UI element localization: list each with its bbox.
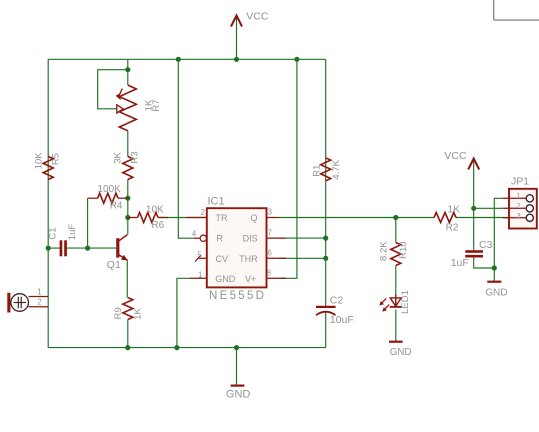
svg-text:C3: C3: [479, 239, 493, 251]
svg-text:1: 1: [517, 191, 521, 200]
svg-text:Q1: Q1: [107, 259, 121, 271]
svg-text:6: 6: [268, 248, 272, 257]
svg-text:R4: R4: [110, 201, 123, 212]
svg-text:NE555D: NE555D: [209, 290, 266, 302]
svg-text:3K: 3K: [113, 151, 124, 163]
svg-text:VCC: VCC: [444, 150, 467, 162]
svg-text:R2: R2: [446, 222, 459, 233]
svg-text:2: 2: [200, 208, 204, 217]
svg-text:1: 1: [37, 287, 42, 296]
svg-text:3: 3: [268, 208, 272, 217]
svg-text:1K: 1K: [448, 205, 461, 216]
svg-text:4: 4: [192, 230, 197, 239]
svg-text:8.2K: 8.2K: [379, 241, 390, 261]
svg-text:100K: 100K: [98, 184, 122, 195]
svg-text:TR: TR: [216, 213, 228, 223]
svg-text:1uF: 1uF: [67, 224, 78, 241]
svg-text:LED1: LED1: [400, 290, 411, 314]
svg-text:JP1: JP1: [511, 175, 529, 187]
svg-text:R1: R1: [311, 165, 322, 177]
svg-text:1K: 1K: [133, 308, 144, 320]
svg-text:GND: GND: [485, 287, 507, 298]
svg-text:1: 1: [198, 271, 202, 280]
svg-text:THR: THR: [239, 254, 258, 264]
svg-text:3: 3: [517, 211, 521, 220]
svg-text:VCC: VCC: [246, 11, 269, 23]
svg-text:IC1: IC1: [208, 195, 225, 207]
svg-text:8: 8: [267, 269, 271, 278]
svg-text:7: 7: [268, 228, 272, 237]
svg-text:R5: R5: [51, 153, 62, 165]
svg-text:DIS: DIS: [243, 234, 258, 244]
svg-text:5: 5: [197, 251, 202, 260]
svg-text:R6: R6: [151, 220, 164, 231]
svg-text:Q: Q: [250, 213, 257, 223]
svg-text:C1: C1: [48, 227, 59, 239]
svg-text:R3: R3: [130, 151, 141, 163]
svg-text:V+: V+: [245, 274, 256, 284]
svg-text:GND: GND: [226, 388, 251, 400]
svg-text:2: 2: [37, 297, 42, 306]
svg-text:4.7K: 4.7K: [331, 159, 342, 179]
svg-text:10K: 10K: [146, 204, 164, 215]
svg-text:2: 2: [517, 201, 521, 210]
svg-text:R10: R10: [398, 241, 409, 258]
svg-text:R9: R9: [113, 307, 124, 319]
svg-text:GND: GND: [390, 347, 412, 358]
svg-text:R7: R7: [151, 99, 162, 111]
svg-text:GND: GND: [215, 274, 236, 284]
svg-text:R: R: [217, 234, 224, 244]
svg-text:1uF: 1uF: [451, 257, 469, 269]
svg-text:10K: 10K: [33, 152, 44, 170]
svg-text:10uF: 10uF: [330, 314, 354, 326]
svg-text:CV: CV: [216, 254, 229, 264]
svg-text:C2: C2: [330, 294, 344, 306]
